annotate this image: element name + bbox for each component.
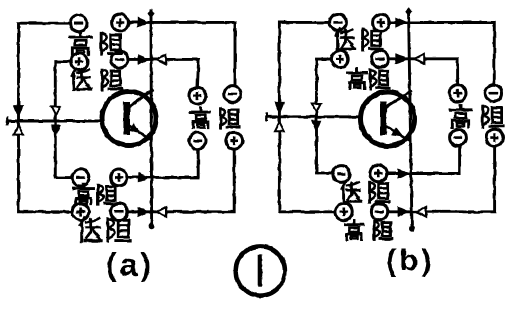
svg-text:(b): (b) <box>386 243 435 278</box>
svg-text:(a): (a) <box>106 247 154 283</box>
